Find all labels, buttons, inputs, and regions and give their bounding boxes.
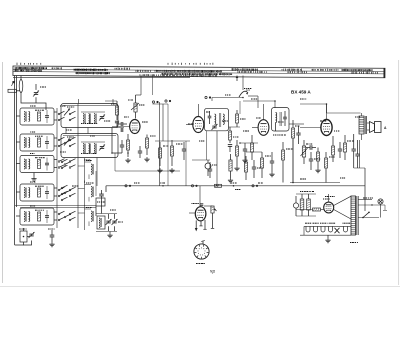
screen resistor R14 (251, 135, 254, 160)
wire (358, 217, 379, 219)
capacitor C35 (200, 204, 204, 206)
ground (157, 168, 162, 173)
ground (325, 235, 330, 243)
label EM80 (192, 203, 199, 205)
wire (199, 186, 201, 207)
electrolytic capacitor C41 (307, 194, 311, 216)
resistor R8 (159, 142, 162, 166)
wire (105, 100, 117, 102)
connector (125, 185, 131, 187)
wire (296, 194, 316, 216)
wire (16, 141, 20, 143)
wire (197, 104, 199, 117)
wire (292, 138, 294, 183)
ground (31, 173, 36, 182)
wire (115, 153, 180, 171)
wire (248, 96, 258, 108)
aerial coil unit L1 (20, 108, 54, 125)
mains switch S6 (362, 212, 370, 219)
wire (354, 167, 365, 169)
wire (54, 111, 57, 113)
aerial coil unit L4 (20, 184, 54, 201)
wire (167, 104, 169, 186)
connector (205, 96, 211, 98)
capacitor C37 (252, 160, 263, 178)
wire (189, 212, 195, 214)
wire (20, 207, 96, 209)
switch S5 (212, 76, 251, 99)
power transformer T4 (351, 196, 358, 235)
wire (192, 159, 210, 161)
aerial coil unit L2 (20, 134, 54, 151)
electrolytic C36 (205, 160, 217, 176)
capacitor C39 (309, 152, 320, 170)
cathode resistor R18 (332, 136, 335, 162)
fuse F1 (19, 76, 23, 93)
wire (105, 186, 107, 192)
resistor R12 (234, 140, 239, 171)
label (350, 242, 358, 244)
oscillator coil group L6-L8 (78, 158, 94, 230)
wire (185, 141, 187, 186)
wire (54, 187, 57, 189)
capacitor C11 (115, 121, 124, 128)
wire (101, 200, 103, 214)
connector (165, 100, 171, 102)
wire (334, 196, 351, 219)
connector (152, 101, 168, 186)
IF tube U2 (193, 117, 204, 133)
wire (54, 159, 57, 161)
output tube U4 (321, 120, 332, 136)
resistor R21 (245, 156, 248, 180)
wire (54, 137, 57, 139)
wire (16, 115, 20, 117)
label fig5 (210, 270, 215, 274)
svg-text:fig5: fig5 (210, 270, 215, 274)
filter choke L12 (293, 196, 298, 216)
svg-text:BX 459 A: BX 459 A (291, 90, 311, 95)
capacitor C31 (338, 142, 342, 158)
aerial coil unit L3 (20, 156, 54, 173)
wire (289, 123, 304, 125)
label A (384, 126, 387, 130)
padder box (96, 198, 105, 206)
cathode resistor R7 (146, 135, 149, 156)
wire (152, 76, 154, 96)
wire (300, 104, 361, 113)
wire (54, 195, 57, 197)
dial pointer P1 (236, 75, 239, 81)
wire (263, 104, 265, 120)
resistor R25 (296, 208, 324, 211)
wire (203, 220, 206, 229)
band switch SB wafers (61, 159, 67, 201)
resistor R26 (325, 152, 335, 183)
trimmer capacitor C1 (33, 84, 46, 103)
junction dots (111, 100, 327, 186)
resistor R24 (282, 142, 293, 183)
capacitor C14 (120, 140, 124, 153)
label BX 459 A (291, 90, 311, 95)
volume potentiometer R16 (301, 140, 308, 164)
label row (300, 192, 335, 197)
AVC bus wire (106, 185, 365, 187)
label under socket (196, 263, 205, 265)
aerial coil unit L5 (20, 208, 54, 225)
capacitor C38 (269, 152, 274, 177)
wire (211, 98, 213, 102)
output transformer T3 (359, 116, 367, 134)
wire (96, 206, 117, 232)
junction (233, 185, 241, 190)
wire (54, 145, 57, 147)
capacitor C34 (208, 162, 212, 178)
wire (361, 113, 363, 140)
RF coil assembly box S4 (61, 134, 118, 158)
wire (16, 191, 20, 193)
page edge right (398, 60, 400, 285)
2nd IF transformer T2 (272, 108, 290, 136)
wire (243, 101, 275, 108)
page edge bottom (0, 286, 400, 288)
resistor R11 (229, 127, 239, 143)
ground (125, 158, 130, 163)
wire (54, 167, 57, 169)
wire (328, 194, 330, 202)
wire (246, 151, 262, 153)
wire (155, 140, 190, 142)
capacitor C28 (296, 126, 300, 144)
resistor R15 (292, 120, 295, 182)
wire (359, 140, 361, 168)
wire (252, 127, 258, 129)
wire (186, 124, 193, 126)
wire (15, 76, 17, 233)
resistor R22 (204, 206, 217, 228)
wire (207, 131, 218, 186)
oscillator coil L10 (97, 216, 105, 229)
resistor R20 (228, 154, 233, 183)
connector (252, 185, 258, 187)
resistor R4 (111, 101, 119, 120)
dial scale assembly (13, 66, 385, 78)
switch S2 with capacitor (19, 228, 35, 245)
dial scale lower edge line (13, 77, 190, 79)
ground (144, 157, 149, 162)
wire (15, 205, 96, 207)
capacitor C20 (99, 190, 104, 200)
capacitor C25 (228, 145, 232, 152)
IF tube U3 (258, 120, 269, 136)
tone capacitor C32 (352, 134, 356, 168)
coupling capacitor C12 (118, 122, 127, 126)
tube socket bottom view (194, 241, 209, 260)
wire (326, 104, 328, 119)
wire (54, 119, 57, 121)
IF transformer T1 (205, 108, 229, 131)
connector (191, 185, 197, 187)
resistor R13 (229, 110, 246, 127)
wire (239, 101, 241, 114)
wire (96, 158, 98, 187)
wire (290, 168, 365, 211)
resistor R9 (171, 140, 174, 166)
svg-text:4.4: 4.4 (246, 88, 250, 92)
wire (199, 221, 202, 226)
triode-hexode U1 (130, 120, 140, 134)
wire (136, 76, 142, 96)
resistor R19 (344, 135, 347, 160)
rectifier tube U6 (323, 199, 334, 213)
wire (15, 232, 24, 245)
capacitor C9 (48, 229, 55, 247)
grid resistor R17 (315, 148, 320, 173)
wire (383, 205, 387, 211)
coupling capacitor C30 (306, 145, 316, 150)
micro labels (30, 95, 360, 222)
pilot lamp (363, 198, 383, 218)
wire (66, 128, 88, 134)
capacitor C15 (138, 146, 142, 158)
wire (78, 99, 80, 104)
wire (54, 211, 57, 213)
trimmer C22 (112, 214, 118, 231)
capacitor C13 (121, 128, 123, 132)
wire (358, 200, 385, 206)
wire (112, 126, 130, 128)
wire (240, 142, 258, 144)
wire (162, 104, 164, 141)
scale numerals above (17, 63, 213, 65)
label AM (246, 88, 250, 92)
wire (54, 219, 57, 221)
resistor R23 (261, 152, 271, 178)
trimmer C21 (106, 214, 112, 231)
wire (112, 128, 122, 154)
wire (21, 93, 46, 111)
wire (195, 220, 198, 231)
page edge left (2, 62, 4, 283)
wire (16, 215, 20, 217)
wire (135, 95, 137, 119)
filament heater chain (300, 223, 351, 235)
grid resistor R6 (127, 134, 130, 157)
band switch SA wafers (57, 104, 78, 228)
AGC resistor R5 (131, 103, 144, 112)
capacitor C33 (355, 140, 359, 168)
antenna terminal arrow (12, 81, 15, 86)
ground (107, 232, 112, 238)
wire (300, 127, 321, 129)
wire (112, 99, 114, 104)
RF coil assembly box S3 (61, 104, 118, 128)
capacitor C27 (242, 143, 247, 163)
ground (169, 168, 174, 173)
electrolytic capacitor C40 (300, 194, 304, 216)
magic eye tube U5 (195, 207, 206, 221)
resistor R27 on bus (215, 184, 222, 187)
wire (16, 163, 20, 165)
wire (95, 171, 97, 196)
aerial terminal block (8, 89, 20, 92)
capacitor C16 (182, 142, 186, 160)
loudspeaker LS (367, 122, 381, 133)
